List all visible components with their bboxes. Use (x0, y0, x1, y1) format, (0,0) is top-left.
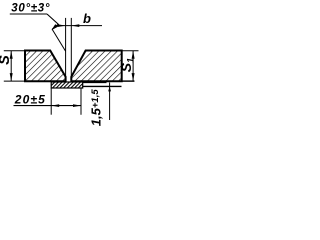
root gap right extension line (70, 18, 72, 81)
right plate (hatched) (71, 51, 121, 82)
dimension S1 top arrow (132, 51, 135, 59)
plate bottom extension to the right (122, 80, 135, 82)
svg-text:20±5: 20±5 (14, 92, 45, 106)
svg-text:S: S (0, 55, 13, 65)
label 30deg leader line (47, 14, 58, 29)
dimension S1 bottom extension line (122, 80, 135, 82)
root gap left extension line (65, 18, 67, 81)
dimension S1 line (132, 51, 134, 81)
left plate (hatched) (25, 51, 66, 82)
svg-text:30°±3°: 30°±3° (11, 2, 50, 14)
dimension b right arrow (71, 24, 79, 27)
dimension S1 top extension line (122, 50, 139, 52)
dimension S top arrow (10, 51, 13, 59)
dimension 20+-5 left extension line (50, 88, 52, 114)
dimension 1,5 arrow (108, 86, 111, 91)
dimension 1,5 line (109, 83, 111, 121)
dimension b line (56, 25, 103, 27)
dimension 20+-5 line with text shelf (14, 105, 82, 107)
dimension 20+-5 right arrow (73, 104, 81, 107)
dimension 1,5 top extension line (83, 81, 107, 83)
dimension S bottom extension line (4, 80, 25, 82)
backing strip (hatched) (51, 82, 82, 88)
dimension b left arrow (58, 24, 66, 27)
label 30deg leader arrowhead (51, 24, 58, 30)
dimension 20+-5 right extension line (80, 88, 82, 114)
bevel angle construction line (52, 30, 65, 52)
dimension 1,5 bottom extension line (83, 85, 122, 87)
dimension S bottom arrow (10, 73, 13, 81)
dimension S line (10, 51, 12, 81)
dimension 20+-5 left arrow (51, 104, 59, 107)
svg-text:b: b (83, 11, 91, 26)
dimension S1 bottom arrow (132, 73, 135, 81)
dimension S top extension line (4, 50, 25, 52)
label 30deg leader shelf (10, 13, 47, 15)
